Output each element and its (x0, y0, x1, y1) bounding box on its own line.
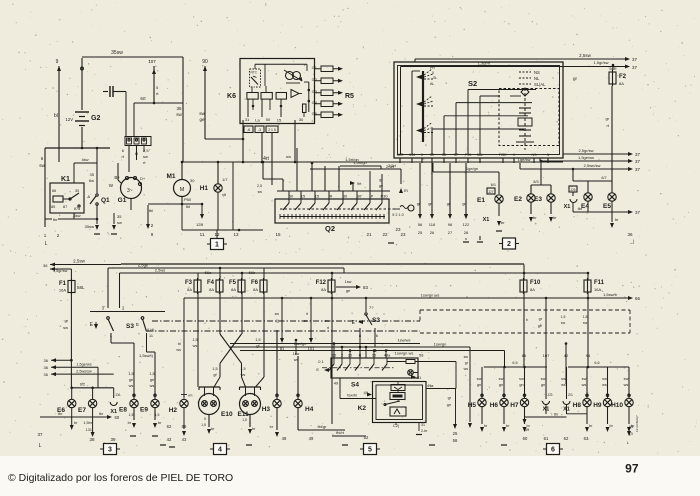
svg-text:63: 63 (584, 436, 589, 441)
svg-text:G1: G1 (312, 65, 318, 70)
svg-text:gr: gr (64, 318, 68, 323)
svg-text:1,5: 1,5 (155, 413, 160, 417)
svg-text:56: 56 (442, 153, 446, 157)
svg-text:R5: R5 (345, 93, 354, 100)
svg-text:6w: 6w (89, 178, 94, 183)
svg-text:sw: sw (176, 112, 182, 117)
svg-text:0 1: 0 1 (318, 359, 324, 364)
svg-text:6/1: 6/1 (491, 183, 496, 187)
svg-text:Q2: Q2 (325, 224, 335, 233)
svg-text:K30: K30 (409, 153, 415, 157)
svg-text:F2: F2 (619, 74, 627, 80)
svg-text:1/7: 1/7 (222, 177, 228, 182)
svg-text:1,5: 1,5 (128, 372, 133, 376)
svg-text:ws: ws (129, 384, 134, 388)
svg-text:K1: K1 (61, 176, 70, 183)
svg-text:rt: rt (143, 160, 146, 165)
svg-text:D+: D+ (140, 176, 146, 181)
svg-text:11: 11 (149, 334, 153, 338)
svg-text:16A: 16A (59, 288, 66, 293)
svg-text:tbr: tbr (53, 217, 58, 222)
svg-text:86: 86 (52, 189, 56, 193)
svg-text:56: 56 (418, 222, 423, 227)
svg-text:E: E (316, 367, 319, 372)
svg-text:28: 28 (464, 230, 469, 235)
svg-text:37: 37 (635, 210, 641, 215)
svg-text:1,5: 1,5 (255, 338, 260, 342)
svg-text:F5: F5 (229, 280, 237, 286)
svg-text:br: br (128, 421, 132, 425)
svg-text:35sw: 35sw (111, 50, 123, 56)
svg-text:2,5: 2,5 (143, 148, 149, 153)
svg-text:gr: gr (465, 361, 469, 365)
svg-text:H4: H4 (305, 406, 314, 413)
svg-text:2: 2 (507, 241, 511, 248)
svg-text:39: 39 (110, 437, 116, 442)
svg-text:sw: sw (624, 377, 629, 381)
svg-text:rt: rt (156, 91, 159, 96)
svg-text:1,5: 1,5 (129, 413, 134, 417)
svg-text:15: 15 (275, 232, 281, 237)
svg-text:br: br (615, 217, 619, 222)
svg-text:Z/1: Z/1 (568, 393, 573, 397)
svg-text:12B: 12B (196, 222, 203, 227)
svg-text:rt: rt (607, 123, 610, 128)
svg-text:8A: 8A (231, 287, 236, 292)
svg-text:H10: H10 (611, 402, 623, 409)
svg-text:9: 9 (151, 232, 154, 237)
svg-text:5: 5 (204, 417, 206, 421)
svg-text:gn: gn (519, 383, 523, 387)
svg-text:-6: -6 (247, 128, 250, 132)
svg-text:sw: sw (561, 321, 566, 325)
svg-text:-3: -3 (258, 128, 261, 132)
svg-text:36: 36 (44, 372, 49, 377)
svg-text:F10: F10 (530, 280, 541, 286)
svg-text:31: 31 (245, 117, 250, 122)
svg-text:15: 15 (315, 194, 320, 199)
svg-text:_|: _| (629, 239, 634, 244)
svg-text:A: A (87, 194, 90, 199)
svg-text:X1: X1 (483, 217, 490, 223)
svg-text:94: 94 (586, 353, 591, 358)
svg-text:2,5sw: 2,5sw (579, 53, 592, 58)
svg-text:sw: sw (117, 220, 122, 225)
svg-text:15: 15 (372, 354, 376, 358)
svg-text:12V: 12V (66, 117, 74, 122)
svg-text:?): ?) (276, 319, 279, 323)
svg-text:Q1: Q1 (101, 197, 110, 204)
svg-text:E7: E7 (78, 407, 86, 414)
svg-text:sw: sw (499, 377, 504, 381)
svg-text:R: R (359, 354, 362, 358)
svg-text:30: 30 (343, 194, 348, 199)
svg-text:E: E (90, 322, 94, 328)
svg-text:ws: ws (624, 383, 629, 387)
svg-text:90: 90 (202, 59, 208, 65)
svg-text:S3: S3 (126, 323, 134, 330)
svg-text:2: 2 (151, 223, 154, 228)
svg-text:M: M (180, 187, 185, 193)
svg-text:E: E (352, 320, 356, 326)
svg-text:6/2: 6/2 (80, 383, 85, 387)
svg-text:9rt: 9rt (357, 182, 362, 186)
svg-text:ws: ws (464, 367, 469, 371)
svg-text:P50: P50 (184, 197, 192, 202)
svg-text:ws: ws (241, 373, 246, 377)
svg-text:L: L (45, 241, 48, 247)
svg-text:X: X (421, 153, 424, 157)
svg-text:86: 86 (522, 353, 527, 358)
svg-text:tbr: tbr (578, 206, 583, 211)
svg-text:37: 37 (635, 152, 641, 157)
svg-text:2,5sw: 2,5sw (73, 259, 86, 264)
svg-text:sw: sw (561, 377, 566, 381)
svg-text:ge: ge (150, 378, 154, 382)
svg-text:58L: 58L (477, 153, 483, 157)
svg-text:G4: G4 (312, 100, 318, 105)
svg-text:br: br (484, 424, 488, 428)
svg-text:27: 27 (448, 230, 453, 235)
svg-text:G5: G5 (312, 111, 318, 116)
svg-text:66: 66 (635, 296, 641, 301)
svg-text:W: W (109, 183, 114, 188)
svg-text:bl: bl (178, 342, 181, 346)
svg-text:36: 36 (44, 358, 49, 363)
svg-text:23: 23 (400, 232, 406, 237)
svg-text:6,6: 6,6 (594, 361, 599, 365)
svg-text:br: br (506, 424, 510, 428)
svg-text:gn: gn (477, 383, 481, 387)
svg-text:L: L (627, 440, 630, 445)
svg-text:56a: 56a (205, 270, 212, 275)
svg-text:P: P (371, 194, 374, 199)
svg-text:1,5gr/sw: 1,5gr/sw (53, 269, 68, 273)
svg-text:F6: F6 (251, 280, 259, 286)
svg-text:ws: ws (150, 384, 155, 388)
svg-text:1: 1 (44, 233, 47, 238)
svg-text:bl: bl (54, 113, 58, 119)
svg-text:F3: F3 (185, 280, 193, 286)
svg-text:87: 87 (63, 205, 67, 209)
svg-text:S2: S2 (468, 79, 477, 88)
svg-text:B+: B+ (114, 175, 120, 180)
svg-text:2,5gr/sw: 2,5gr/sw (578, 148, 593, 153)
svg-text:15: 15 (301, 194, 306, 199)
svg-text:rt: rt (122, 154, 125, 159)
svg-text:2: 2 (122, 306, 125, 311)
svg-text:37: 37 (635, 167, 641, 172)
svg-text:58: 58 (419, 353, 424, 358)
svg-text:1ge/gn: 1ge/gn (466, 166, 478, 171)
svg-text:gn: gn (447, 403, 451, 407)
svg-text:P30: P30 (465, 153, 471, 157)
svg-text:48: 48 (282, 436, 287, 441)
svg-text:br: br (252, 427, 256, 431)
svg-text:gr: gr (379, 178, 383, 182)
svg-text:8A: 8A (187, 287, 192, 292)
svg-text:1: 1 (215, 242, 219, 249)
svg-text:1ge/sw: 1ge/sw (518, 157, 531, 162)
svg-text:122: 122 (463, 222, 470, 227)
svg-text:gn: gn (499, 383, 503, 387)
svg-text:SL|AL: SL|AL (534, 82, 546, 87)
svg-text:gr: gr (539, 317, 543, 321)
svg-text:M1: M1 (166, 173, 175, 180)
svg-text:107: 107 (148, 59, 156, 64)
svg-text:96: 96 (448, 222, 453, 227)
svg-text:br: br (270, 425, 274, 429)
svg-text:6,5: 6,5 (512, 361, 517, 365)
svg-text:38: 38 (89, 437, 95, 442)
svg-text:3~: 3~ (127, 188, 133, 194)
svg-text:H8: H8 (573, 402, 582, 409)
svg-text:1,5: 1,5 (201, 423, 206, 427)
svg-text:br: br (610, 424, 614, 428)
svg-text:4rt: 4rt (263, 156, 269, 162)
svg-text:sw: sw (286, 154, 291, 159)
svg-text:H: H (513, 153, 516, 157)
svg-text:ge: ge (199, 117, 205, 122)
svg-text:ws: ws (193, 344, 198, 348)
svg-text:NS: NS (532, 153, 538, 157)
svg-text:5 2 1.0: 5 2 1.0 (392, 213, 404, 217)
svg-text:3: 3 (108, 447, 112, 454)
svg-text:9: 9 (56, 59, 59, 65)
svg-text:2: 2 (57, 233, 60, 238)
svg-text:vrn: vrn (188, 394, 193, 398)
svg-text:bl: bl (135, 151, 138, 156)
svg-text:60: 60 (523, 436, 528, 441)
svg-text:1,5: 1,5 (242, 418, 247, 422)
svg-text:S3: S3 (372, 317, 380, 324)
svg-text:E1: E1 (477, 197, 485, 204)
svg-text:1,5: 1,5 (583, 315, 588, 319)
svg-text:br: br (74, 421, 78, 425)
svg-text:NTC: NTC (251, 71, 258, 75)
svg-text:ws: ws (561, 383, 566, 387)
svg-text:E8: E8 (119, 407, 127, 414)
svg-text:tbr: tbr (58, 412, 63, 416)
svg-text:gn: gn (428, 202, 432, 206)
svg-text:1,5sw/t): 1,5sw/t) (139, 353, 154, 358)
svg-text:2 1 5: 2 1 5 (268, 128, 276, 132)
svg-text:rt: rt (327, 326, 329, 330)
svg-text:gr: gr (573, 76, 578, 81)
svg-text:56: 56 (453, 438, 458, 443)
svg-text:8A: 8A (253, 287, 258, 292)
svg-text:E9: E9 (140, 407, 148, 414)
svg-text:ws: ws (176, 348, 181, 352)
svg-text:31: 31 (417, 376, 421, 380)
svg-text:H5: H5 (468, 402, 477, 409)
svg-text:G1: G1 (118, 197, 127, 204)
svg-text:vlt: vlt (222, 192, 227, 197)
svg-text:15: 15 (332, 354, 336, 358)
svg-text:25: 25 (418, 230, 423, 235)
svg-text:X1: X1 (564, 204, 571, 210)
svg-text:br: br (501, 220, 505, 225)
svg-text:1,5ge/ws: 1,5ge/ws (76, 363, 91, 367)
svg-text:sw: sw (464, 355, 469, 359)
svg-text:6rt: 6rt (140, 96, 146, 101)
svg-text:35: 35 (117, 214, 122, 219)
svg-text:N: N (547, 153, 550, 157)
svg-text:88: 88 (182, 424, 187, 429)
svg-text:tbr: tbr (554, 413, 559, 417)
svg-text:35: 35 (90, 172, 95, 177)
svg-text:E3: E3 (534, 196, 542, 203)
svg-text:50: 50 (266, 117, 271, 122)
svg-text:36: 36 (43, 263, 48, 268)
svg-text:2,5ws/sw: 2,5ws/sw (76, 370, 92, 374)
svg-text:2,5: 2,5 (257, 184, 262, 188)
svg-text:7?: 7? (369, 305, 374, 310)
svg-text:2: 2 (341, 354, 343, 358)
svg-text:rt: rt (306, 312, 308, 316)
svg-text:1sw/gn: 1sw/gn (294, 341, 307, 346)
svg-text:83: 83 (363, 285, 369, 290)
svg-text:br: br (533, 215, 537, 220)
svg-text:sw: sw (602, 377, 607, 381)
svg-text:8/3: 8/3 (533, 180, 538, 184)
svg-text:23: 23 (395, 227, 401, 232)
svg-text:AL: AL (430, 82, 434, 86)
svg-text:K6: K6 (227, 93, 236, 100)
svg-text:36: 36 (627, 232, 633, 237)
svg-text:58L: 58L (77, 285, 85, 290)
svg-text:sw: sw (304, 319, 309, 323)
svg-text:gr: gr (605, 116, 609, 121)
svg-text:1sw: 1sw (345, 280, 352, 284)
svg-text:gf: gf (213, 373, 217, 377)
svg-text:sw: sw (258, 190, 263, 194)
svg-text:57: 57 (454, 153, 458, 157)
svg-text:sw: sw (519, 377, 524, 381)
svg-text:61: 61 (544, 436, 549, 441)
svg-text:F1: F1 (59, 281, 67, 287)
svg-text:37: 37 (37, 432, 43, 437)
svg-text:50: 50 (289, 194, 294, 199)
svg-text:0: 0 (432, 71, 434, 75)
svg-text:2,5ws: 2,5ws (155, 268, 165, 273)
svg-text:1,5: 1,5 (192, 338, 197, 342)
svg-text:1,5ge/ws: 1,5ge/ws (578, 155, 594, 160)
svg-text:ge: ge (346, 289, 350, 293)
svg-text:b: b (526, 318, 528, 322)
svg-text:62: 62 (167, 424, 172, 429)
svg-text:1sw/gn ws: 1sw/gn ws (395, 351, 414, 356)
svg-text:La: La (255, 118, 260, 123)
svg-text:HSE: HSE (499, 153, 507, 157)
svg-text:52: 52 (364, 435, 369, 440)
svg-text:107: 107 (543, 353, 550, 358)
svg-text:11: 11 (200, 232, 205, 237)
svg-text:sw: sw (143, 154, 148, 159)
svg-text:30: 30 (357, 194, 362, 199)
svg-text:1,5rt/gn: 1,5rt/gn (353, 160, 367, 165)
svg-text:30: 30 (348, 354, 352, 358)
svg-text:G3: G3 (312, 89, 318, 94)
svg-text:G2: G2 (312, 77, 318, 82)
svg-text:sw: sw (199, 111, 205, 116)
svg-text:58R: 58R (397, 153, 404, 157)
svg-text:6/7: 6/7 (601, 176, 606, 180)
svg-text:gn: gn (541, 383, 545, 387)
svg-text:E10: E10 (221, 411, 233, 418)
svg-text:118: 118 (429, 222, 436, 227)
svg-text:Z/6: Z/6 (570, 188, 575, 192)
svg-text:br: br (158, 421, 162, 425)
svg-text:sw: sw (63, 325, 68, 330)
svg-text:30: 30 (430, 153, 434, 157)
svg-text:1,5: 1,5 (149, 372, 154, 376)
svg-text:sw: sw (325, 319, 330, 323)
svg-text:E2: E2 (514, 196, 522, 203)
svg-text:49: 49 (309, 436, 314, 441)
svg-text:sw: sw (541, 377, 546, 381)
svg-text:6: 6 (551, 447, 555, 454)
svg-text:H3: H3 (262, 406, 271, 413)
svg-text:H7: H7 (510, 402, 519, 409)
svg-text:Z/2: Z/2 (548, 393, 553, 397)
svg-text:sw: sw (583, 321, 588, 325)
svg-text:49: 49 (334, 381, 339, 386)
svg-text:fsw/bl: fsw/bl (347, 394, 357, 398)
svg-text:1,5: 1,5 (240, 367, 245, 371)
svg-text:ge: ge (129, 378, 133, 382)
svg-text:sw: sw (39, 163, 45, 168)
svg-text:56b: 56b (249, 270, 256, 275)
svg-text:30: 30 (299, 117, 304, 122)
svg-text:43: 43 (182, 437, 187, 442)
svg-text:8A: 8A (209, 287, 214, 292)
svg-text:6: 6 (122, 148, 125, 153)
svg-text:H2: H2 (169, 407, 178, 414)
svg-text:97: 97 (625, 462, 639, 476)
svg-text:br: br (553, 215, 557, 220)
svg-text:SL: SL (433, 76, 437, 80)
svg-text:F12: F12 (316, 280, 327, 286)
svg-text:m: m (404, 188, 408, 193)
svg-text:tbi: tbi (186, 204, 190, 209)
svg-text:65: 65 (629, 424, 634, 429)
svg-text:2-br: 2-br (421, 429, 428, 433)
svg-text:5: 5 (368, 447, 372, 454)
svg-text:fbl/rt: fbl/rt (336, 430, 345, 435)
svg-text:60: 60 (115, 415, 120, 420)
svg-text:131: 131 (86, 428, 92, 432)
svg-text:1,5: 1,5 (561, 315, 566, 319)
svg-text:ge: ge (538, 324, 542, 328)
svg-text:2,5wn/sw: 2,5wn/sw (584, 163, 601, 168)
svg-text:R: R (330, 194, 333, 199)
svg-text:tbl: tbl (149, 208, 153, 213)
svg-text:37: 37 (635, 159, 641, 164)
svg-text:ZA: ZA (116, 393, 121, 397)
svg-text:gn: gn (462, 202, 466, 206)
svg-text:42: 42 (167, 437, 172, 442)
svg-text:G2: G2 (91, 115, 100, 122)
svg-text:1,5sw/b: 1,5sw/b (603, 292, 618, 297)
svg-text:62: 62 (564, 436, 569, 441)
svg-text:1sw/ws: 1sw/ws (397, 338, 410, 343)
svg-text:K2: K2 (358, 405, 367, 412)
svg-text:13: 13 (233, 232, 239, 237)
svg-text:Z/7: Z/7 (488, 190, 493, 194)
svg-text:22: 22 (382, 232, 388, 237)
svg-text:1sw/gn: 1sw/gn (434, 342, 447, 347)
